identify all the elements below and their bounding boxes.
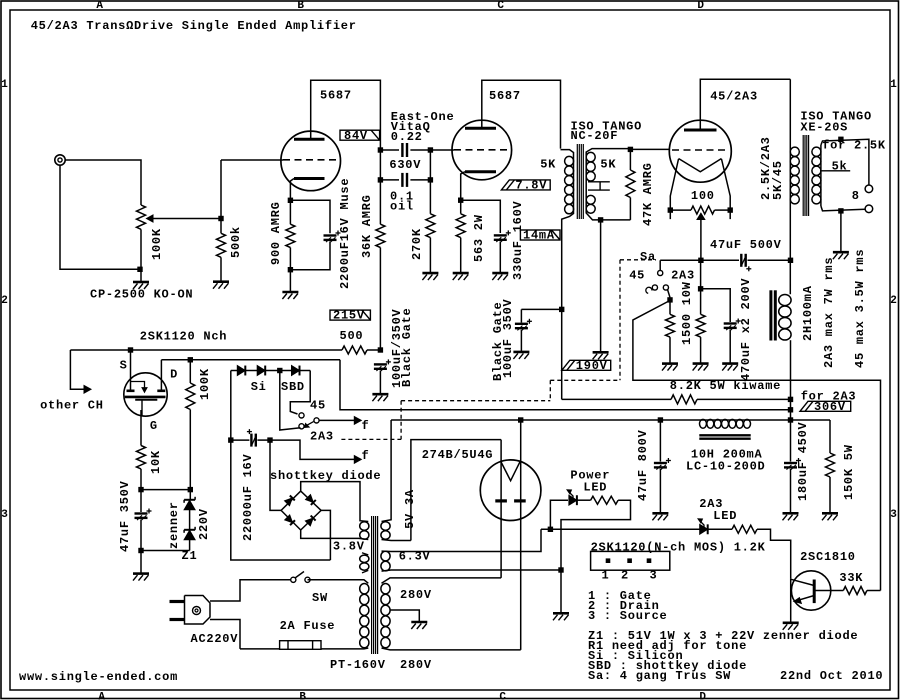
svg-text:563 2W: 563 2W xyxy=(472,214,486,262)
junction wiper rail xyxy=(698,258,703,263)
ground 1500 xyxy=(662,362,678,365)
choke 10H 200mA xyxy=(700,419,707,428)
collector wire and 33K xyxy=(814,590,843,592)
svg-text:B: B xyxy=(299,692,306,700)
svg-text:306V: 306V xyxy=(814,400,846,414)
switch SW xyxy=(291,577,296,582)
svg-text:Black Gate: Black Gate xyxy=(400,307,414,387)
transistor emitter to ground xyxy=(790,579,792,623)
svg-text:oil: oil xyxy=(390,199,414,213)
5V heater loop xyxy=(411,440,501,541)
svg-text:AC220V: AC220V xyxy=(191,632,239,646)
tube V3 45/2A3 xyxy=(669,120,731,182)
junction B+ spine 215V xyxy=(559,307,564,312)
wire V1 plate to B+ spine xyxy=(311,80,381,224)
ground right resistor xyxy=(693,362,709,365)
svg-text:22nd Oct 2010: 22nd Oct 2010 xyxy=(780,669,883,683)
svg-text:470uF x2 200V: 470uF x2 200V xyxy=(739,278,753,381)
resistor 47K AMRG xyxy=(628,147,633,152)
svg-text:1: 1 xyxy=(602,569,610,583)
wire SBD to 45 contact xyxy=(290,371,310,415)
svg-text:SBD: SBD xyxy=(281,380,305,394)
junction coupling cap C2 left xyxy=(378,177,383,182)
svg-text:45 max 3.5W rms: 45 max 3.5W rms xyxy=(853,249,867,368)
ground 500k xyxy=(213,280,229,283)
svg-text:33K: 33K xyxy=(839,571,863,585)
tube V1 5687 xyxy=(281,131,341,191)
PT 5V winding xyxy=(381,522,390,531)
V4 plate V xyxy=(501,462,520,481)
resistor 900 AMRG xyxy=(286,224,295,247)
connector box xyxy=(591,551,670,570)
LED 2A3 xyxy=(700,524,708,534)
svg-text:270K: 270K xyxy=(410,228,424,260)
svg-text:1500 10W: 1500 10W xyxy=(680,281,694,345)
5k tap stub xyxy=(820,170,850,172)
wire grid drop xyxy=(220,160,222,233)
wire SW to primary xyxy=(310,579,364,581)
ground 270K xyxy=(422,272,438,275)
svg-text:3.8V: 3.8V xyxy=(333,540,365,554)
svg-text:5K/45: 5K/45 xyxy=(771,160,785,200)
svg-text:280V: 280V xyxy=(400,658,432,672)
svg-text:45: 45 xyxy=(310,399,326,413)
junction C1 right xyxy=(428,147,433,152)
ground 330uF xyxy=(492,272,508,275)
V4 filament bars xyxy=(495,499,507,502)
svg-text:3: 3 xyxy=(1,509,8,521)
svg-text:47K AMRG: 47K AMRG xyxy=(641,162,655,226)
T1 core xyxy=(576,144,578,219)
MOSFET Q1 2SK1120 xyxy=(124,373,167,416)
AC plug xyxy=(185,596,211,625)
switch Sa wire from rail xyxy=(659,260,661,270)
svg-text:5K: 5K xyxy=(600,158,616,172)
bridge negative rail xyxy=(231,440,331,560)
PT 3.8V winding xyxy=(360,522,369,531)
transistor Q2 2SC1810 xyxy=(791,571,830,610)
svg-text:D: D xyxy=(697,0,704,12)
flag 306V xyxy=(800,401,851,411)
V3 filament xyxy=(679,159,722,172)
svg-text:500k: 500k xyxy=(229,226,243,258)
svg-text:Sa: Sa xyxy=(640,250,656,264)
svg-text:NC-20F: NC-20F xyxy=(571,129,619,143)
svg-text:for 2.5K: for 2.5K xyxy=(822,138,886,152)
ground 470uF xyxy=(722,362,738,365)
bridge right wire xyxy=(321,510,330,560)
T2 primary coil xyxy=(790,147,799,156)
wire diode to 2200uF xyxy=(230,371,232,441)
flag 215V xyxy=(330,310,370,320)
resistor 500 xyxy=(342,346,367,354)
svg-text:2H100mA: 2H100mA xyxy=(801,285,815,341)
svg-text:0.22: 0.22 xyxy=(391,130,423,144)
wire cap bottom xyxy=(290,242,330,270)
resistor 270K xyxy=(429,180,431,214)
switch Sb contacts xyxy=(299,413,304,418)
flag 7.8V xyxy=(501,180,550,190)
wire to f arrow 2 xyxy=(270,440,354,459)
svg-text:45/2A3 TransΩDrive Single Ende: 45/2A3 TransΩDrive Single Ended Amplifie… xyxy=(31,19,357,33)
T2 core xyxy=(802,135,804,216)
T2 secondary top tap for 2.5K xyxy=(821,139,869,185)
fuse 2A xyxy=(280,641,321,650)
filament supply rail xyxy=(660,259,739,261)
ground pot xyxy=(133,281,149,284)
resistor 563 2W xyxy=(456,214,465,238)
junction C2 right xyxy=(428,177,433,182)
svg-text:CP-2500 KO-ON: CP-2500 KO-ON xyxy=(90,288,193,302)
svg-text:2A Fuse: 2A Fuse xyxy=(280,619,336,633)
6.3V LED rail xyxy=(541,528,700,530)
svg-text:180uF 450V: 180uF 450V xyxy=(796,421,810,501)
switch pole feedback diagonal xyxy=(633,302,881,591)
hum pot wiper xyxy=(697,213,705,219)
svg-text:274B/5U4G: 274B/5U4G xyxy=(422,448,494,462)
switch Sb lever xyxy=(307,422,314,426)
svg-text:5687: 5687 xyxy=(489,89,521,103)
capacitor 47uF 500V xyxy=(740,254,742,267)
svg-text:Si: Si xyxy=(251,380,267,394)
resistor 36K AMRG xyxy=(376,224,385,247)
resistor power LED xyxy=(577,499,591,501)
capacitor 330uF 160V xyxy=(494,234,507,236)
wire 1.2K to transistor base xyxy=(757,529,791,578)
svg-text:2200uF16V Muse: 2200uF16V Muse xyxy=(338,178,352,289)
svg-text:2SK1120(N-ch MOS) 1.2K: 2SK1120(N-ch MOS) 1.2K xyxy=(591,541,766,555)
output terminal 2 xyxy=(865,205,873,213)
svg-text:280V: 280V xyxy=(400,588,432,602)
B+ 306V rail xyxy=(340,360,791,410)
junction pot bottom xyxy=(137,267,142,272)
T1 secondary center tap mark xyxy=(588,181,610,183)
wire plug to fuse xyxy=(210,620,240,649)
svg-text:100uF 350V: 100uF 350V xyxy=(501,298,515,378)
svg-text:G: G xyxy=(150,419,158,433)
T1 secondary coil xyxy=(586,149,630,220)
wire jack to pot xyxy=(65,160,141,205)
PT 6.3V winding xyxy=(381,551,390,561)
svg-text:1: 1 xyxy=(1,79,8,91)
junction wiper xyxy=(218,216,223,221)
svg-text:other CH: other CH xyxy=(40,399,104,413)
junction 2200uF left xyxy=(228,437,233,442)
svg-text:36K AMRG: 36K AMRG xyxy=(360,194,374,258)
PT 280V center tap xyxy=(390,610,420,622)
svg-text:B: B xyxy=(297,0,304,12)
wire V3 plate to output transformer xyxy=(700,79,790,130)
wire V1 cathode xyxy=(290,179,294,225)
svg-text:14mA: 14mA xyxy=(523,229,555,243)
svg-text:D: D xyxy=(699,692,706,700)
resistor 150K 5W xyxy=(829,420,831,453)
svg-text:500: 500 xyxy=(340,329,364,343)
capacitor 100uF/350V Black Gate xyxy=(374,363,387,365)
junction T1 secondary bottom xyxy=(598,217,603,222)
svg-text:84V: 84V xyxy=(344,129,368,143)
diode string Si xyxy=(231,370,238,372)
svg-text:47uF 500V: 47uF 500V xyxy=(710,238,782,252)
svg-text:8.2K 5W kiwame: 8.2K 5W kiwame xyxy=(670,379,781,393)
junction 2200uF right xyxy=(267,437,272,442)
svg-text:PT-160V: PT-160V xyxy=(330,658,386,672)
svg-text:2A3: 2A3 xyxy=(671,269,695,283)
svg-text:Sa: 4 gang Trus SW: Sa: 4 gang Trus SW xyxy=(588,669,731,683)
PT 280V winding xyxy=(381,584,390,594)
T2 primary bobbin line to choke xyxy=(789,79,791,294)
wire cathode to bypass cap xyxy=(290,200,330,233)
svg-text:1: 1 xyxy=(890,79,897,91)
transformer PT-160V core xyxy=(371,516,373,654)
wire other CH xyxy=(70,350,84,389)
junction V2 cathode xyxy=(458,198,463,203)
svg-text:XE-20S: XE-20S xyxy=(800,120,848,134)
junction filament rail right xyxy=(788,258,793,263)
svg-text:190V: 190V xyxy=(576,359,608,373)
svg-text:C: C xyxy=(499,692,506,700)
svg-text:5K: 5K xyxy=(540,158,556,172)
svg-text:A: A xyxy=(96,0,103,12)
source rail xyxy=(70,349,342,351)
ground 190V point xyxy=(593,351,609,354)
capacitor 22000uF 16V xyxy=(231,439,250,441)
diode SBD xyxy=(292,366,300,376)
svg-text:LED: LED xyxy=(713,509,737,523)
svg-text:2SC1810: 2SC1810 xyxy=(800,550,856,564)
resistor 1.2K xyxy=(708,528,732,530)
svg-text:2SK1120 Nch: 2SK1120 Nch xyxy=(140,329,227,343)
svg-text:900 AMRG: 900 AMRG xyxy=(269,201,283,265)
wire to f arrow 1 xyxy=(319,419,354,421)
svg-text:2: 2 xyxy=(890,295,897,307)
svg-text:LC-10-200D: LC-10-200D xyxy=(686,460,766,474)
svg-text:630V: 630V xyxy=(389,158,421,172)
resistor 1500 10W xyxy=(666,314,675,337)
flag 14mA xyxy=(520,230,560,240)
switch Sa contacts xyxy=(658,270,663,275)
wire V2 plate to transformer xyxy=(482,80,561,148)
svg-text:LED: LED xyxy=(583,480,607,494)
svg-text:zenner: zenner xyxy=(167,501,181,549)
wire V2 grid xyxy=(430,149,454,151)
capacitor Black Gate 100uF 350V right xyxy=(521,308,561,310)
potentiometer 100K xyxy=(137,205,146,229)
ground V1 cathode xyxy=(282,291,298,294)
dashed Sa linkage xyxy=(620,259,656,261)
resistor 10K xyxy=(137,446,146,469)
svg-text:6.3V: 6.3V xyxy=(399,550,431,564)
svg-text:5V 3A: 5V 3A xyxy=(403,489,417,529)
junction spine 500 xyxy=(378,347,383,352)
hum pot 100 row xyxy=(668,207,673,212)
svg-text:f: f xyxy=(362,419,370,433)
svg-text:100K: 100K xyxy=(150,228,164,260)
capacitor 2200uF16V Muse xyxy=(324,234,337,236)
choke 2H100mA xyxy=(769,290,772,340)
bridge rectifier xyxy=(281,491,321,530)
junction kiwame right xyxy=(788,397,793,402)
ground 563 xyxy=(453,272,469,275)
svg-text:shottkey diode: shottkey diode xyxy=(270,469,381,483)
V4 left filament lead xyxy=(500,440,502,578)
svg-text:7.8V: 7.8V xyxy=(515,179,547,193)
tube V2 5687 xyxy=(452,120,512,180)
svg-text:8: 8 xyxy=(852,189,860,203)
svg-text:3: 3 xyxy=(890,509,897,521)
T2 secondary coil xyxy=(812,147,821,156)
svg-text:150K 5W: 150K 5W xyxy=(842,444,856,500)
svg-text:S: S xyxy=(120,359,128,373)
svg-text:5687: 5687 xyxy=(320,89,352,103)
ground T2 secondary xyxy=(840,211,842,252)
PT primary winding xyxy=(360,584,369,594)
capacitor C2 0.1 oil xyxy=(380,179,399,181)
svg-text:2A3: 2A3 xyxy=(310,430,334,444)
svg-text:SW: SW xyxy=(312,591,328,605)
tube V4 274B/5U4G xyxy=(480,460,541,521)
svg-text:45/2A3: 45/2A3 xyxy=(710,89,758,103)
T2 secondary bottom xyxy=(821,206,865,211)
zener diodes Z1 xyxy=(184,500,195,510)
svg-text:45: 45 xyxy=(629,269,645,283)
power LED xyxy=(569,495,577,505)
flag 84V xyxy=(340,130,380,140)
wire V2 cathode xyxy=(461,172,465,214)
resistor 1500 right xyxy=(700,260,702,314)
svg-text:3: 3 xyxy=(650,569,658,583)
pot wiper arrow xyxy=(148,218,221,220)
svg-text:22000uF 16V: 22000uF 16V xyxy=(241,453,255,541)
svg-text:f: f xyxy=(362,449,370,463)
T1 primary coil xyxy=(561,150,574,400)
capacitor 47uF 350V xyxy=(140,490,142,512)
svg-text:3 : Source: 3 : Source xyxy=(588,609,668,623)
wire LED return to ground xyxy=(561,500,631,613)
bridge left wire xyxy=(270,440,281,510)
svg-text:47uF 350V: 47uF 350V xyxy=(118,480,132,552)
svg-text:5k: 5k xyxy=(832,160,848,174)
junction V1 cathode xyxy=(288,198,293,203)
svg-text:220V: 220V xyxy=(197,508,211,540)
power LED branch xyxy=(550,500,568,529)
capacitor 47uF 800V xyxy=(659,420,661,462)
ground bias xyxy=(140,551,142,574)
capacitor C1 0.22 East-One xyxy=(380,149,399,151)
flag 190V xyxy=(562,360,611,370)
wire jack ground side xyxy=(60,165,141,269)
junction coupling cap C1 left xyxy=(378,147,383,152)
input jack J1 xyxy=(55,155,65,165)
junction 900 bottom xyxy=(288,267,293,272)
svg-text:2A3 max 7W rms: 2A3 max 7W rms xyxy=(822,257,836,368)
svg-text:2: 2 xyxy=(1,295,8,307)
svg-text:10K: 10K xyxy=(149,450,163,474)
svg-text:47uF 800V: 47uF 800V xyxy=(636,429,650,501)
resistor 500k xyxy=(217,233,226,257)
capacitor 470uF x2 200V xyxy=(701,289,731,322)
wire cathode to 330uF xyxy=(461,200,501,233)
wire secondary bottom to ground xyxy=(600,220,602,352)
wire plug to SW xyxy=(210,580,291,601)
switch pole to resistor xyxy=(668,290,671,298)
svg-text:www.single-ended.com: www.single-ended.com xyxy=(19,670,178,684)
output terminal 1 xyxy=(865,185,873,193)
junction bias row xyxy=(138,487,143,492)
svg-text:100: 100 xyxy=(691,189,715,203)
wire C1-C2 right link xyxy=(429,150,431,180)
svg-text:2: 2 xyxy=(621,569,629,583)
wire SBD junction down xyxy=(280,371,301,431)
svg-text:215V: 215V xyxy=(333,309,365,323)
PT aux winding left xyxy=(360,555,369,562)
svg-text:100K: 100K xyxy=(198,368,212,400)
junction zener bottom xyxy=(138,548,143,553)
filament DC rail xyxy=(391,419,830,421)
resistor 100K xyxy=(189,360,191,383)
V4 right filament lead / B+ line xyxy=(520,420,522,650)
resistor 8.2K 5W kiwame xyxy=(562,398,671,400)
wire gate to 10K xyxy=(140,410,142,446)
svg-text:A: A xyxy=(98,692,105,700)
wire V1 grid xyxy=(221,159,283,161)
capacitor 180uF 450V xyxy=(790,420,792,462)
svg-text:C: C xyxy=(497,0,504,12)
svg-text:D: D xyxy=(170,368,178,382)
drain rail xyxy=(161,359,340,361)
wire V3 grid xyxy=(630,148,669,150)
junction 6.3V rail xyxy=(548,527,553,532)
